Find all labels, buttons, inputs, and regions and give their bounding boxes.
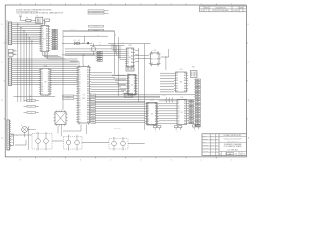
notes heading — [16, 10, 52, 12]
wire stubs below U1 — [43, 52, 66, 59]
svg-text:D3: D3 — [177, 108, 179, 110]
svg-text:D1: D1 — [176, 75, 178, 77]
net flag column far right — [194, 78, 200, 127]
svg-text:1/2: 1/2 — [243, 153, 245, 155]
svg-text:D6: D6 — [127, 61, 129, 63]
svg-text:D7: D7 — [177, 118, 179, 120]
svg-text:D5: D5 — [147, 116, 149, 118]
svg-text:MFG ENGR: MFG ENGR — [203, 144, 209, 146]
svg-text:D9: D9 — [78, 88, 80, 90]
svg-text:DESCRIPTION: DESCRIPTION — [215, 7, 225, 9]
svg-text:LS244: LS244 — [128, 45, 132, 47]
svg-text:D7: D7 — [41, 40, 43, 42]
svg-text:D4: D4 — [147, 113, 149, 115]
svg-text:D2: D2 — [78, 119, 80, 121]
svg-text:D5: D5 — [41, 80, 43, 82]
IC U1 — [39, 23, 50, 52]
IC U2 label — [82, 95, 85, 101]
svg-text:D9: D9 — [41, 44, 43, 46]
svg-text:402: 402 — [229, 153, 232, 155]
net flag pair bus — [89, 25, 104, 32]
svg-text:D3: D3 — [78, 121, 80, 123]
IC U5 — [149, 50, 161, 66]
crystal oscillator circle — [22, 126, 36, 150]
svg-text:D8: D8 — [147, 123, 149, 125]
svg-text:D0: D0 — [41, 26, 43, 28]
svg-text:D7: D7 — [147, 121, 149, 123]
svg-text:D1: D1 — [78, 117, 80, 119]
capacitor group bottom right — [154, 125, 200, 130]
title block — [202, 134, 246, 156]
diode D2 — [78, 40, 80, 45]
svg-text:D4: D4 — [41, 34, 43, 36]
svg-text:D9: D9 — [41, 89, 43, 91]
svg-text:D0: D0 — [41, 46, 43, 48]
revision block table — [200, 6, 247, 12]
svg-text:D0: D0 — [78, 67, 80, 69]
wire U8 bottom stubs — [43, 95, 48, 96]
svg-text:CHECKED: CHECKED — [203, 138, 208, 140]
svg-text:C2: C2 — [14, 50, 16, 52]
transistor group Q6 Q7 — [109, 137, 128, 151]
svg-text:D0: D0 — [151, 54, 153, 56]
svg-text:D8: D8 — [177, 120, 179, 122]
wire vertical to SQ1 — [62, 30, 64, 110]
svg-text:8-4-86: 8-4-86 — [211, 138, 214, 140]
svg-text:D1: D1 — [74, 40, 76, 42]
svg-text:8-4-86: 8-4-86 — [233, 10, 237, 12]
svg-text:D2: D2 — [78, 72, 80, 74]
diode D1 — [74, 40, 77, 45]
wire U3 outputs to riser — [135, 50, 139, 61]
IC U6 ROM — [174, 69, 188, 92]
svg-text:U1: U1 — [44, 38, 46, 40]
svg-text:U9: U9 — [151, 113, 153, 115]
wire long horizontals — [14, 44, 161, 103]
svg-text:D2: D2 — [128, 80, 130, 82]
svg-text:D5: D5 — [78, 79, 80, 81]
svg-text:U8: U8 — [44, 81, 46, 83]
svg-text:D7: D7 — [127, 63, 129, 65]
wire bundle U2 right upper — [91, 73, 126, 92]
svg-text:D0: D0 — [127, 49, 129, 51]
svg-text:D3: D3 — [78, 98, 80, 100]
svg-text:D3: D3 — [176, 80, 178, 82]
capacitor group C5 — [166, 98, 173, 103]
svg-text:RST: RST — [99, 44, 102, 46]
svg-text:D1: D1 — [128, 78, 130, 80]
svg-text:C10: C10 — [194, 130, 196, 132]
connector J1 pin numbers — [6, 23, 8, 46]
svg-text:U5: U5 — [154, 59, 156, 61]
svg-text:U7: U7 — [181, 112, 183, 114]
svg-text:D2: D2 — [127, 53, 129, 55]
wire U9 to U7 — [159, 101, 176, 123]
svg-text:D3: D3 — [41, 76, 43, 78]
svg-text:D3: D3 — [147, 111, 149, 113]
svg-text:D9: D9 — [78, 112, 80, 114]
wire bundle J1 to U1 — [13, 23, 41, 44]
svg-text:D6: D6 — [41, 82, 43, 84]
capacitor C1 — [43, 19, 50, 22]
svg-text:D3: D3 — [41, 32, 43, 34]
svg-text:D7: D7 — [41, 85, 43, 87]
svg-text:Y1: Y1 — [36, 15, 38, 17]
svg-text:D2: D2 — [176, 78, 178, 80]
net flags U1 outputs — [51, 29, 58, 51]
svg-text:D6: D6 — [177, 115, 179, 117]
svg-text:INTERRUPT REQ: INTERRUPT REQ — [92, 13, 100, 15]
svg-text:D0: D0 — [176, 73, 178, 75]
svg-text:D1: D1 — [151, 58, 153, 60]
transistor group Q2 Q3 — [32, 132, 52, 151]
svg-text:130: 130 — [235, 153, 238, 155]
svg-text:D5: D5 — [177, 113, 179, 115]
svg-text:U3: U3 — [129, 57, 131, 59]
wire U2 top pins — [70, 55, 83, 65]
svg-text:D9: D9 — [177, 123, 179, 125]
svg-text:LS138: LS138 — [43, 66, 47, 68]
svg-text:C5-C7: C5-C7 — [162, 95, 166, 97]
svg-text:D6: D6 — [78, 105, 80, 107]
svg-text:D0: D0 — [177, 100, 179, 102]
svg-text:D7: D7 — [78, 84, 80, 86]
net label speckle — [16, 23, 196, 139]
svg-text:LS373: LS373 — [150, 100, 154, 102]
svg-text:D0: D0 — [78, 114, 80, 116]
svg-text:D0: D0 — [41, 69, 43, 71]
wire bottom interconnect — [11, 126, 145, 145]
svg-text:RN2: RN2 — [125, 92, 128, 94]
resistor R1 — [21, 18, 36, 22]
svg-text:D1: D1 — [41, 48, 43, 50]
svg-text:D1: D1 — [41, 71, 43, 73]
wire stair U3 inputs — [112, 44, 125, 60]
svg-text:D8: D8 — [41, 87, 43, 89]
transistor group Q4 Q5 — [63, 135, 82, 151]
svg-text:ENGR: ENGR — [203, 141, 206, 143]
svg-text:SEE NOTE 1: SEE NOTE 1 — [114, 128, 121, 130]
svg-text:8-4-86: 8-4-86 — [211, 144, 214, 146]
IC U4 — [126, 74, 138, 95]
svg-text:D0: D0 — [147, 103, 149, 105]
crystal Y1 — [36, 15, 43, 23]
svg-text:WR: WR — [97, 35, 99, 37]
wire bundle U2 to U7 U9 — [95, 95, 194, 123]
svg-text:U4: U4 — [131, 84, 133, 86]
svg-text:8-4-86: 8-4-86 — [211, 141, 214, 143]
svg-text:CLK: CLK — [99, 42, 101, 44]
svg-text:D6: D6 — [147, 118, 149, 120]
svg-text:8-4-86: 8-4-86 — [211, 148, 214, 150]
net flag pair lower left — [63, 94, 78, 100]
svg-text:D1: D1 — [147, 106, 149, 108]
svg-text:D4: D4 — [78, 77, 80, 79]
resistor network RN1 — [126, 67, 134, 71]
svg-text:D6: D6 — [128, 91, 130, 93]
svg-text:8-4-86: 8-4-86 — [211, 151, 214, 153]
IC U2 microprocessor — [76, 65, 91, 125]
wire stair U4 inputs — [112, 76, 126, 94]
svg-text:D2: D2 — [177, 105, 179, 107]
svg-text:D5: D5 — [78, 102, 80, 104]
svg-text:D2: D2 — [78, 40, 80, 42]
svg-text:D1: D1 — [78, 93, 80, 95]
wire ground spine — [6, 20, 8, 120]
svg-text:D4: D4 — [176, 83, 178, 85]
net flag pair top — [88, 10, 109, 15]
svg-text:D4: D4 — [41, 78, 43, 80]
svg-text:INTERRUPT REQ: INTERRUPT REQ — [92, 10, 100, 12]
svg-text:D4: D4 — [177, 110, 179, 112]
IC U8 — [39, 66, 52, 96]
svg-text:8-4-86: 8-4-86 — [211, 135, 214, 137]
svg-text:D1: D1 — [41, 93, 43, 95]
svg-text:D4: D4 — [78, 100, 80, 102]
svg-text:D3: D3 — [78, 74, 80, 76]
svg-text:D0: D0 — [41, 91, 43, 93]
svg-text:D7: D7 — [176, 90, 178, 92]
svg-text:D5: D5 — [128, 88, 130, 90]
svg-text:U6: U6 — [180, 82, 182, 84]
svg-text:RN1: RN1 — [127, 72, 130, 74]
svg-text:6116: 6116 — [180, 97, 183, 99]
svg-text:D1: D1 — [41, 28, 43, 30]
net flags mid stack — [96, 51, 103, 62]
IC U7 ROM — [175, 97, 188, 125]
svg-text:D5: D5 — [176, 85, 178, 87]
svg-text:D1: D1 — [78, 70, 80, 72]
wire U2 bottom — [63, 125, 87, 134]
svg-text:D2: D2 — [41, 74, 43, 76]
component SQ1 clock module — [53, 110, 67, 126]
wire diode row — [62, 36, 95, 55]
svg-text:D8: D8 — [78, 86, 80, 88]
resistor network RN2 — [124, 94, 133, 98]
svg-text:D2: D2 — [78, 95, 80, 97]
IC U9 — [145, 100, 159, 126]
svg-text:D2: D2 — [41, 30, 43, 32]
wire U3 to U5 — [135, 49, 169, 70]
svg-text:D8: D8 — [78, 110, 80, 112]
IC U3 — [125, 45, 135, 67]
resistor network RN3 — [191, 67, 198, 78]
wire vertical risers center — [115, 31, 145, 130]
VCC stub — [19, 15, 22, 21]
svg-text:D1: D1 — [127, 51, 129, 53]
pin number speckle U2 — [76, 67, 92, 121]
net flags U7 right — [188, 100, 194, 125]
connector J3 — [7, 120, 11, 151]
connector J3 aux contact block — [10, 134, 14, 146]
connector J1 — [8, 21, 13, 45]
net flag labels U2 right — [91, 93, 96, 124]
wire bundle to U6 — [160, 73, 174, 92]
svg-text:RN3: RN3 — [192, 67, 195, 69]
svg-text:D2: D2 — [147, 108, 149, 110]
note 1 text — [16, 12, 64, 15]
wire bus A — [63, 31, 115, 36]
svg-text:D7: D7 — [78, 107, 80, 109]
svg-text:D6: D6 — [176, 88, 178, 90]
svg-text:REV: REV — [205, 7, 208, 9]
svg-text:D0: D0 — [78, 91, 80, 93]
capacitor C2 C3 pair — [8, 50, 16, 57]
wire Y1 to U1 clock pin — [44, 22, 46, 26]
svg-text:LS74: LS74 — [153, 50, 156, 52]
svg-text:VCC: VCC — [19, 15, 22, 17]
transistor Q1 — [91, 43, 96, 55]
svg-text:D6: D6 — [78, 81, 80, 83]
svg-text:2764: 2764 — [180, 69, 183, 71]
svg-text:D8: D8 — [41, 42, 43, 44]
svg-text:D1: D1 — [177, 103, 179, 105]
svg-text:D0: D0 — [128, 75, 130, 77]
svg-text:R1: R1 — [26, 18, 28, 20]
connector J2 — [8, 57, 13, 85]
net flag lower left 2 — [24, 100, 40, 114]
svg-text:U2: U2 — [83, 95, 85, 97]
svg-text:8085: 8085 — [82, 98, 85, 100]
svg-text:D5: D5 — [127, 59, 129, 61]
wire bundle J2 to U2 — [13, 59, 77, 84]
wire band to U3 stairs — [65, 49, 117, 56]
capacitor C4 polarized — [87, 42, 89, 44]
wire U1 area vertical taps — [17, 23, 32, 102]
svg-text:5-2 130 402: 5-2 130 402 — [228, 149, 238, 151]
svg-text:C3: C3 — [14, 53, 16, 55]
svg-text:D2: D2 — [151, 63, 153, 65]
